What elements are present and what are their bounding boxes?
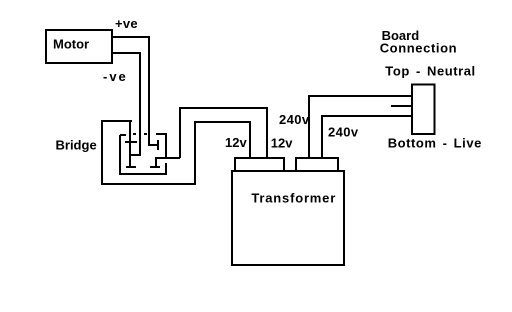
terminal block 240v [296, 158, 338, 171]
svg-text:Motor: Motor [53, 37, 89, 52]
svg-text:Connection: Connection [380, 41, 458, 56]
wire +ve from motor to bridge [113, 37, 158, 145]
wire 240v live to board [322, 116, 411, 158]
terminal block 12v [235, 158, 284, 171]
wire -ve from motor to bridge [113, 53, 140, 155]
wire bridge inner box [120, 135, 166, 174]
wire bridge lower-right horizontal [155, 157, 180, 159]
svg-text:Bridge: Bridge [56, 138, 97, 153]
svg-text:+ve: +ve [115, 16, 138, 31]
svg-text:-ve: -ve [103, 69, 128, 84]
motor M1 [46, 30, 112, 63]
svg-text:Transformer: Transformer [251, 191, 336, 206]
svg-text:12v: 12v [271, 136, 293, 151]
diode D4 drop [155, 158, 157, 167]
diode D1 bar [125, 141, 137, 143]
diode D2 bar [126, 166, 136, 168]
svg-text:Top - Neutral: Top - Neutral [385, 64, 475, 79]
svg-text:Bottom - Live: Bottom - Live [388, 136, 482, 151]
diode D3 bar [157, 140, 159, 150]
svg-text:240v: 240v [328, 125, 359, 140]
wire bridge inner vertical node [129, 121, 131, 168]
svg-text:240v: 240v [279, 112, 310, 127]
wire right tick and drop [156, 134, 166, 158]
board connection block [412, 85, 435, 135]
transformer T1 [232, 171, 344, 265]
svg-text:12v: 12v [225, 135, 247, 150]
diode D4 bar [150, 166, 160, 168]
wire earth stub [391, 105, 411, 107]
wire bridge to 12v terminal upper [180, 108, 267, 158]
wire bridge outer loop to 12v terminal [102, 121, 250, 184]
node dot b [144, 133, 147, 135]
node dot a [133, 133, 136, 135]
wire 240v neutral to board [309, 96, 411, 158]
wire left tick [120, 134, 126, 136]
